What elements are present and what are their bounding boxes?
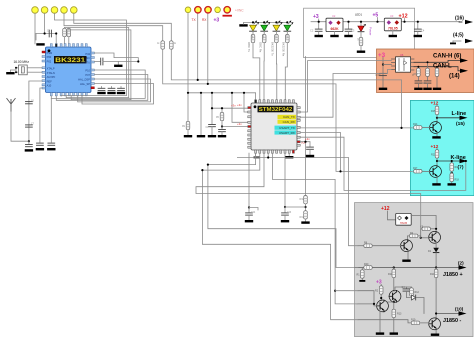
ground C23: [284, 215, 286, 220]
wire CAN-L: [414, 67, 461, 71]
ground crystal: [6, 72, 14, 74]
node NRST junction: [221, 125, 223, 127]
wire R4 loop to BK bottom pin: [66, 96, 129, 98]
termination resistor R25: [436, 67, 438, 68]
connector arrow J1850+: [459, 265, 467, 269]
svg-text:(14): (14): [449, 74, 460, 80]
wire TP3 long run to lower field: [55, 13, 127, 95]
node C16 top: [211, 107, 213, 109]
ground connector: [453, 40, 461, 42]
svg-text:662K: 662K: [330, 27, 339, 31]
wire +3 feed down to MCU: [305, 57, 307, 196]
wire C3 tap: [348, 22, 350, 29]
capacitor C23: [284, 207, 286, 213]
node LED1 top: [360, 21, 362, 23]
capacitor C19: [427, 77, 429, 81]
test pad +3 pad: [215, 7, 221, 13]
capacitor C22: [307, 147, 314, 149]
wire +12 to U7: [388, 211, 396, 220]
CAN block background: [377, 49, 474, 93]
wire antenna stem: [11, 112, 29, 142]
resistor R14: [414, 126, 422, 130]
wire R19 to Q6 base: [420, 322, 429, 325]
svg-text:U2: U2: [332, 14, 336, 18]
wire +12 tap: [404, 19, 406, 22]
wire R02 to Q5 base: [380, 295, 382, 301]
node K-line feedback tap: [465, 160, 467, 162]
ground R18: [451, 182, 453, 183]
connector arrow CAN-H: [460, 58, 468, 62]
U5 right pin stubs: [411, 59, 414, 70]
node Q5 base: [380, 297, 382, 299]
svg-text:+3: +3: [378, 52, 386, 59]
termination resistor R24: [427, 62, 429, 68]
svg-text:R21: R21: [431, 154, 436, 157]
wire TP5 to pullup R3: [74, 13, 172, 40]
ground C10: [379, 88, 387, 90]
wire +3 down to C10: [382, 58, 384, 88]
ground under TP1 wire: [36, 43, 44, 45]
wire K-line feedback loop: [300, 137, 466, 190]
svg-text:C24: C24: [251, 212, 256, 214]
resistor R6 reset pullup: [221, 108, 223, 112]
svg-text:R10: R10: [430, 273, 435, 276]
wire R4b left to Q3 collector: [407, 236, 409, 241]
svg-text:P02: P02: [47, 60, 52, 64]
resistor R13: [393, 302, 395, 309]
antenna ANT1: [7, 99, 15, 112]
svg-text:R11: R11: [388, 273, 393, 276]
diode D1: [435, 242, 437, 248]
wire R21 to K-line node: [436, 158, 438, 166]
wire bottom pin 1 down: [50, 96, 52, 142]
wire R15 to L-line node: [436, 115, 438, 122]
svg-text:OBC Tx: OBC Tx: [247, 42, 251, 52]
wire main power rail: [311, 21, 460, 23]
wire R17 to base: [422, 170, 429, 172]
IC U4 BK3231 body: [45, 47, 91, 93]
capacitor C3: [345, 29, 352, 31]
wire R5 top tap: [68, 28, 70, 30]
wire R4 top tap: [64, 27, 66, 30]
node +3v branch: [304, 141, 306, 143]
connector arrow CAN-L: [460, 69, 468, 73]
label CAN_RX: [278, 120, 297, 124]
capacitor C18: [417, 77, 419, 81]
svg-text:L-line: L-line: [452, 111, 467, 117]
capacitor C10: [380, 73, 387, 75]
node TX junction: [197, 79, 199, 81]
J1850 block background: [355, 203, 474, 337]
resistor R19: [411, 321, 419, 325]
wire +3v pin branch: [300, 142, 310, 147]
node K-line R16: [451, 160, 453, 162]
wire crystal to ground: [10, 70, 16, 72]
resistor R21: [436, 149, 438, 150]
wire P34 to cap node: [94, 53, 138, 62]
transistor Q4: [389, 290, 401, 302]
wire D1 to J1850+ rail: [435, 253, 437, 268]
wire R2 bottom to TX rail: [163, 50, 413, 172]
wire +3 to U5: [383, 64, 391, 66]
ground R21b: [361, 279, 363, 281]
svg-text:R13: R13: [397, 313, 402, 316]
resistor R20 input: [364, 266, 372, 270]
wire staircase D to Q5 input: [272, 153, 357, 304]
resistor R8: [364, 244, 372, 248]
svg-text:R12: R12: [415, 291, 420, 294]
wire staircase A to R20 input: [208, 153, 358, 267]
wire C8 to node: [103, 61, 138, 63]
wire R4b right: [418, 236, 421, 238]
wire CAN TX from MCU: [300, 61, 391, 112]
svg-text:C4: C4: [421, 29, 425, 33]
wire R10 to J1850-: [435, 278, 437, 319]
wire R5 loop to BK bottom pin: [71, 96, 131, 100]
pull-up resistor R2: [161, 41, 165, 49]
wire CAN-H: [414, 61, 462, 63]
resistor R11: [393, 268, 395, 269]
ground C3: [348, 32, 350, 35]
svg-text:U3: U3: [390, 14, 394, 18]
svg-text:(10): (10): [455, 307, 464, 312]
svg-text:CAN_RX: CAN_RX: [283, 120, 295, 124]
divider resistor Rb: [304, 211, 308, 219]
connector arrow pin 16: [465, 20, 473, 24]
svg-text:16.00 MHz: 16.00 MHz: [14, 60, 30, 64]
connector arrow K-line: [460, 159, 468, 163]
decoupling capacitor C14: [111, 87, 113, 89]
ground U3: [392, 31, 394, 35]
divider resistor Ra: [304, 196, 308, 204]
wire REF pin to antenna column: [29, 81, 42, 141]
svg-text:78L05: 78L05: [400, 221, 408, 225]
svg-text:J1850 -: J1850 -: [443, 318, 461, 324]
svg-text:+3v: +3v: [237, 103, 242, 107]
capacitor C7: [26, 125, 33, 127]
node L-line: [436, 117, 438, 119]
wire BK HAL_DSP loop: [78, 79, 151, 102]
wire left input to R19: [358, 320, 411, 323]
resistor R17: [414, 170, 422, 174]
transistor Q3: [401, 240, 413, 252]
svg-text:430: 430: [250, 35, 253, 40]
wire U1 gnd pin2: [255, 153, 258, 156]
svg-text:R15: R15: [431, 110, 436, 113]
svg-text:+VNC: +VNC: [235, 9, 244, 13]
LED1 red: [360, 22, 362, 26]
svg-text:+12: +12: [431, 101, 439, 106]
wire R3 bottom to RX rail: [171, 50, 412, 128]
svg-text:(2): (2): [458, 261, 464, 266]
wire Q3 emitter gnd: [407, 251, 409, 259]
wire U7 out to Q1 collector: [411, 216, 436, 233]
test pad RX stem: [207, 13, 209, 84]
wire USART_RX pin to rail: [300, 133, 340, 172]
test pad TX ringed: [195, 7, 201, 13]
STM32F042 label: [258, 106, 294, 113]
capacitor C20 base-collector: [422, 227, 430, 231]
resistor R18: [451, 172, 453, 173]
regulator U7: [396, 213, 412, 225]
node Q6 collector: [435, 312, 437, 314]
U4 left pin labels: [47, 51, 56, 88]
test pad TP5: [71, 7, 78, 14]
svg-text:C2: C2: [310, 29, 314, 33]
node RX junction: [207, 83, 209, 85]
wire MCU bottom pin to C23: [284, 153, 286, 207]
transistor Q1: [429, 231, 441, 243]
wire CAN RX from MCU: [300, 70, 391, 118]
wire box edge to R8: [358, 245, 364, 247]
LED D2 yellow: [247, 21, 260, 100]
svg-text:R17: R17: [413, 167, 418, 170]
ground C12: [47, 148, 55, 150]
svg-text:+12: +12: [431, 144, 439, 149]
resistor R15: [436, 105, 438, 106]
connector arrow pins 4 5: [465, 39, 473, 43]
wire R14 to base: [422, 127, 429, 129]
svg-text:+3v: +3v: [237, 122, 242, 126]
test pad RX ringed: [205, 7, 211, 13]
wire staircase C to Q1 base feed: [196, 153, 421, 229]
node antenna junction: [28, 140, 30, 142]
svg-text:(4;5): (4;5): [453, 33, 464, 39]
node C2 top: [318, 21, 320, 23]
wire staircase B to R19 input: [202, 153, 358, 320]
test pad P1 stem: [187, 13, 189, 121]
svg-text:+3v: +3v: [231, 104, 236, 108]
K/L-line block background: [410, 100, 474, 195]
ground Q3: [402, 260, 410, 262]
svg-text:P00: P00: [47, 55, 52, 59]
node R23 top: [417, 66, 419, 68]
ground antenna matching: [25, 149, 33, 151]
wire BK P10 loop to filter: [51, 70, 145, 98]
wire Q8 emitter to gnd: [436, 177, 438, 183]
ground R24: [427, 83, 429, 87]
resistor R1: [360, 32, 362, 37]
transistor Q7: [430, 122, 442, 134]
capacitor C11: [37, 143, 44, 145]
svg-text:C3: C3: [351, 29, 355, 33]
IC U5 CAN transceiver: [396, 57, 411, 72]
resistor R21b pulldown: [361, 268, 363, 270]
wire Q5 emitter gnd: [379, 311, 381, 332]
svg-text:PRETU: PRETU: [81, 61, 90, 65]
svg-text:C23: C23: [287, 212, 292, 214]
wire K-line out: [437, 160, 461, 162]
wire C23 to divider mid: [285, 206, 306, 208]
capacitor C5: [49, 30, 51, 37]
node D1 rail: [435, 266, 437, 268]
connector arrow J1850-: [459, 311, 467, 315]
wire D6 to J1850- driver: [416, 298, 424, 314]
svg-text:+3: +3: [313, 14, 319, 20]
regulator U2 662K: [326, 18, 343, 31]
label CAN_TX: [278, 115, 297, 119]
ground R9: [184, 135, 192, 137]
wire U1 gnd pin: [288, 153, 290, 156]
U4 top pins: [50, 44, 87, 47]
svg-text:R14: R14: [413, 123, 418, 126]
node R11 top: [393, 266, 395, 268]
wire pin A10 down: [40, 88, 42, 142]
svg-text:P07: P07: [85, 73, 90, 77]
svg-text:STM32F042: STM32F042: [259, 107, 293, 113]
wire BOOT drop to pins: [232, 93, 248, 123]
svg-text:PSM: PSM: [47, 51, 53, 55]
wire LED rail: [244, 22, 288, 24]
svg-text:HAL_DSP: HAL_DSP: [78, 78, 90, 82]
test pad VBAT ringed: [224, 7, 230, 13]
transistor Q6: [429, 318, 441, 330]
node divider mid: [305, 204, 307, 210]
svg-text:+3: +3: [214, 18, 220, 24]
svg-text:A10: A10: [47, 84, 52, 88]
capacitor C6: [26, 102, 33, 104]
U4 right pin labels: [78, 52, 90, 86]
node +5: [376, 21, 378, 23]
label USART_TX: [275, 126, 297, 130]
node R13 top: [393, 301, 395, 303]
pull-up resistor R3: [170, 41, 174, 49]
ground U1 bottom right: [285, 156, 293, 158]
wire R6 bottom to NRST: [222, 121, 248, 127]
svg-text:Power: Power: [369, 27, 373, 36]
wire R11 to Q4: [393, 278, 395, 291]
capacitor C24: [248, 208, 250, 213]
capacitor C4: [414, 29, 421, 31]
node Q1 base: [420, 237, 422, 239]
BK3231 label: [54, 56, 87, 63]
svg-text:LED1: LED1: [355, 13, 362, 17]
svg-text:REF: REF: [47, 79, 53, 83]
ground R13: [393, 318, 395, 333]
svg-text:R30: R30: [300, 199, 305, 201]
wire stub left of C5: [35, 34, 37, 41]
capacitor C16: [209, 125, 216, 127]
LED D3 green: [258, 21, 269, 100]
node C10: [382, 63, 384, 65]
U1 top pins: [255, 100, 295, 103]
termination resistor R23: [417, 67, 419, 68]
svg-text:820: 820: [261, 35, 264, 40]
svg-text:820: 820: [284, 35, 287, 40]
wire ground column: [200, 93, 202, 135]
wire TP2 stem to cap node: [44, 13, 46, 33]
node R16 R18: [451, 172, 453, 174]
node C23: [284, 206, 286, 208]
decoupling capacitor C15: [120, 87, 122, 89]
wire Q5 collector to Q4 emitter: [387, 300, 394, 303]
wire R5 bottom to pin: [68, 37, 70, 44]
svg-text:R20: R20: [364, 263, 369, 266]
wire J1850+ rail: [355, 267, 460, 269]
LED D5 green: [282, 21, 293, 100]
node R6 top: [221, 107, 223, 109]
ground divider: [305, 219, 307, 221]
regulator U3 78L05: [384, 18, 401, 31]
wire Q7 emitter to gnd: [436, 133, 438, 136]
svg-text:XTALP: XTALP: [47, 67, 55, 71]
svg-text:BK3230 Tx: BK3230 Tx: [271, 42, 275, 56]
capacitor C17 reset: [221, 127, 223, 130]
wire TP1 stem: [34, 13, 36, 44]
transistor Q5: [377, 300, 389, 312]
svg-text:CAN-H (6): CAN-H (6): [433, 54, 461, 60]
LED D4 yellow: [271, 21, 282, 100]
ground C24: [248, 215, 250, 220]
node R24 top: [427, 61, 429, 63]
ground R1: [360, 46, 362, 51]
svg-text:P34: P34: [85, 52, 90, 56]
resistor R16: [451, 161, 453, 163]
svg-text:J1850 +: J1850 +: [443, 272, 463, 278]
svg-text:C30: C30: [422, 83, 427, 85]
test pad TP2: [41, 7, 48, 14]
capacitor C2: [315, 29, 322, 31]
svg-text:430: 430: [273, 35, 276, 40]
ground R23: [417, 83, 419, 87]
resistor R02: [380, 285, 382, 286]
ground C2: [318, 32, 320, 35]
ground C4: [417, 32, 419, 35]
wire MCU bottom pin to cap C24: [248, 153, 250, 207]
wire C20 right: [431, 228, 436, 230]
capacitor C9 to ground: [28, 141, 30, 144]
svg-text:BK3230 Rx: BK3230 Rx: [282, 42, 286, 57]
ground U1 bottom mid: [254, 157, 260, 159]
ground C8 tap: [117, 62, 119, 65]
svg-text:78L05: 78L05: [388, 26, 398, 30]
wire Q5 base from left: [358, 291, 377, 306]
svg-text:USART_RX: USART_RX: [279, 131, 295, 135]
svg-text:+12: +12: [381, 206, 390, 212]
node crystal left top: [15, 67, 17, 69]
wire C24 node right: [249, 208, 258, 211]
pin 1 marker: [254, 105, 257, 108]
wire BOOT rail: [188, 93, 256, 100]
ground C22: [309, 150, 311, 155]
U4 right pins: [91, 52, 94, 89]
resistor R12: [410, 288, 414, 296]
ground Q6: [431, 334, 439, 336]
wire +3v rail to STM32: [212, 107, 248, 109]
svg-text:U6: U6: [400, 53, 404, 57]
node TP2 junction: [44, 32, 46, 34]
U1 left pins: [248, 107, 251, 149]
node +12: [403, 21, 405, 23]
wire Q4 collector net: [395, 287, 412, 291]
test pad TP3: [51, 7, 58, 14]
wire BK P07 loop to filter: [56, 75, 148, 101]
connector arrow L-line: [460, 116, 468, 120]
wire TP4 to pullup R2: [64, 13, 163, 40]
node Q1 collector: [435, 228, 437, 230]
U1 bottom pins: [255, 150, 295, 153]
wire R8 to Q3 base: [373, 245, 401, 247]
capacitor C8 near PRETU: [94, 61, 100, 63]
svg-text:CAN_TX: CAN_TX: [283, 115, 295, 119]
ground Q8: [432, 183, 440, 185]
wire XTALN: [27, 71, 42, 73]
node C4 top: [417, 21, 419, 23]
ground Q7: [432, 136, 440, 138]
test pad P1 pad: [185, 7, 191, 13]
svg-text:R18: R18: [455, 179, 460, 182]
svg-text:HAL_SP: HAL_SP: [80, 82, 90, 86]
